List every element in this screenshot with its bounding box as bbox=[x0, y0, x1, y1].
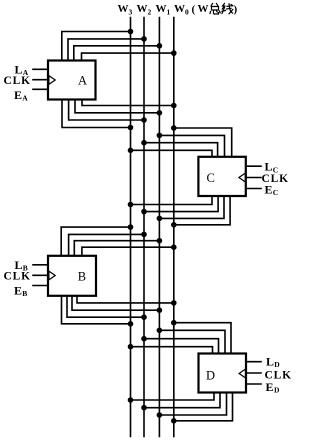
svg-text:A: A bbox=[22, 93, 28, 102]
chinese zong bbox=[210, 4, 220, 15]
junction C-W1 top bbox=[157, 133, 163, 139]
junction D-W2 bottom bbox=[141, 405, 147, 411]
junction A-W2 top bbox=[141, 36, 147, 42]
wire D top to W2 bbox=[144, 339, 219, 354]
wire D top to W3 bbox=[131, 347, 213, 354]
svg-text:E: E bbox=[14, 283, 22, 297]
junction D-W1 top bbox=[157, 328, 163, 334]
svg-text:1: 1 bbox=[167, 8, 171, 17]
wire B bottom to W2 bbox=[67, 296, 144, 317]
junction C-W1 bottom bbox=[157, 216, 163, 222]
pin stub EC bbox=[246, 188, 261, 190]
svg-text:D: D bbox=[274, 360, 280, 369]
wire B bottom to W3 bbox=[62, 296, 131, 324]
wire D bottom to W0 bbox=[174, 393, 233, 421]
svg-text:W: W bbox=[198, 3, 209, 15]
pin stub EA bbox=[33, 88, 48, 90]
wire C top to W3 bbox=[131, 150, 213, 157]
junction D-W0 top bbox=[171, 320, 177, 326]
wire C top to W1 bbox=[159, 135, 224, 156]
svg-text:W: W bbox=[156, 3, 167, 15]
pin stub LC bbox=[246, 165, 261, 167]
wire C bottom to W3 bbox=[131, 196, 213, 205]
clock triangle D bbox=[239, 369, 245, 378]
wire B top to W3 bbox=[61, 227, 130, 256]
clock triangle B bbox=[49, 271, 55, 280]
junction A-W0 bottom bbox=[171, 103, 177, 109]
junction C-W3 bottom bbox=[128, 202, 134, 208]
pin stub LB bbox=[33, 264, 48, 266]
svg-text:): ) bbox=[234, 4, 238, 16]
junction D-W3 bottom bbox=[128, 397, 134, 403]
clock triangle C bbox=[239, 173, 245, 182]
junction D-W1 bottom bbox=[157, 412, 163, 418]
wire A bottom D3 to W3 bbox=[62, 100, 131, 128]
svg-text:(: ( bbox=[192, 4, 196, 16]
junction A-W3 bottom bbox=[128, 125, 134, 131]
wire B top to W0 bbox=[82, 247, 174, 256]
svg-text:CLK: CLK bbox=[4, 271, 31, 283]
svg-text:W: W bbox=[174, 3, 185, 15]
svg-text:B: B bbox=[22, 289, 27, 298]
bus line W0 bbox=[173, 18, 175, 437]
junction A-W0 top bbox=[171, 50, 177, 56]
bus line W2 bbox=[143, 18, 145, 437]
svg-text:0: 0 bbox=[185, 8, 189, 17]
register C bbox=[198, 157, 245, 196]
pin stub EB bbox=[33, 285, 48, 287]
wire B top to W1 bbox=[74, 241, 159, 256]
wire D top to W0 bbox=[174, 323, 231, 354]
junction C-W2 top bbox=[141, 140, 147, 146]
svg-text:CLK: CLK bbox=[4, 75, 31, 87]
wire A top Q2 to W2 bbox=[68, 39, 144, 61]
junction C-W2 bottom bbox=[141, 209, 147, 215]
wire C bottom to W0 bbox=[174, 196, 230, 225]
svg-text:E: E bbox=[266, 380, 274, 394]
junction A-W3 top bbox=[128, 29, 134, 35]
wire A bottom D2 to W2 bbox=[69, 100, 144, 121]
svg-text:L: L bbox=[266, 355, 274, 369]
wire C bottom to W1 bbox=[159, 196, 224, 218]
wire B bottom to W1 bbox=[72, 296, 159, 310]
svg-text:A: A bbox=[78, 74, 87, 88]
junction A-W1 bottom bbox=[157, 110, 163, 116]
junction B-W1 top bbox=[157, 238, 163, 244]
pin stub ED bbox=[246, 383, 261, 385]
junction B-W2 bottom bbox=[141, 314, 147, 320]
register A bbox=[48, 61, 96, 100]
pin stub CLKC bbox=[246, 177, 261, 179]
wire C bottom to W2 bbox=[144, 196, 218, 212]
junction A-W1 top bbox=[157, 43, 163, 49]
junction B-W1 bottom bbox=[157, 307, 163, 313]
wire A top Q1 to W1 bbox=[74, 46, 160, 61]
wire D bottom to W1 bbox=[159, 393, 226, 416]
junction B-W3 top bbox=[128, 224, 134, 230]
svg-text:E: E bbox=[14, 88, 22, 102]
svg-text:L: L bbox=[265, 160, 273, 174]
wire A bottom D0 to W0 bbox=[82, 100, 174, 106]
bus line W3 bbox=[130, 18, 132, 437]
wire A top Q0 to W0 bbox=[82, 53, 174, 60]
svg-text:D: D bbox=[206, 368, 215, 382]
wire D bottom to W2 bbox=[144, 393, 220, 408]
junction B-W0 bottom bbox=[171, 300, 177, 306]
svg-text:C: C bbox=[273, 188, 278, 197]
pin stub CLKD bbox=[246, 372, 261, 374]
svg-text:W: W bbox=[137, 3, 148, 15]
junction B-W0 top bbox=[171, 244, 177, 250]
svg-text:B: B bbox=[78, 269, 86, 283]
junction D-W0 bottom bbox=[171, 418, 177, 424]
chinese xian bbox=[222, 4, 233, 14]
junction D-W2 top bbox=[141, 336, 147, 342]
svg-text:2: 2 bbox=[148, 8, 152, 17]
junction C-W3 top bbox=[128, 148, 134, 154]
wire C top to W2 bbox=[144, 143, 218, 157]
svg-text:D: D bbox=[274, 386, 280, 395]
junction B-W3 bottom bbox=[128, 321, 134, 327]
svg-text:W: W bbox=[118, 3, 129, 15]
junction D-W3 top bbox=[128, 344, 134, 350]
wire D top to W1 bbox=[159, 330, 225, 353]
svg-text:C: C bbox=[207, 171, 215, 185]
junction C-W0 bottom bbox=[171, 222, 177, 228]
wire A bottom D1 to W1 bbox=[75, 100, 159, 113]
wire A top Q3 to W3 bbox=[62, 32, 131, 61]
wire B top to W2 bbox=[69, 234, 144, 255]
register B bbox=[48, 256, 96, 296]
bus line W1 bbox=[158, 18, 160, 437]
wire D bottom to W3 bbox=[131, 393, 215, 401]
wire B bottom to W0 bbox=[77, 296, 174, 303]
svg-text:3: 3 bbox=[129, 8, 133, 17]
pin stub CLKB bbox=[33, 274, 48, 276]
register D bbox=[199, 354, 247, 393]
clock triangle A bbox=[49, 76, 55, 85]
pin stub LD bbox=[246, 361, 261, 363]
junction A-W2 bottom bbox=[141, 117, 147, 123]
pin stub LA bbox=[33, 68, 48, 70]
wire C top to W0 bbox=[174, 128, 232, 157]
svg-text:E: E bbox=[265, 182, 273, 196]
junction C-W0 top bbox=[171, 125, 177, 131]
pin stub CLKA bbox=[33, 79, 48, 81]
junction B-W2 top bbox=[141, 232, 147, 238]
